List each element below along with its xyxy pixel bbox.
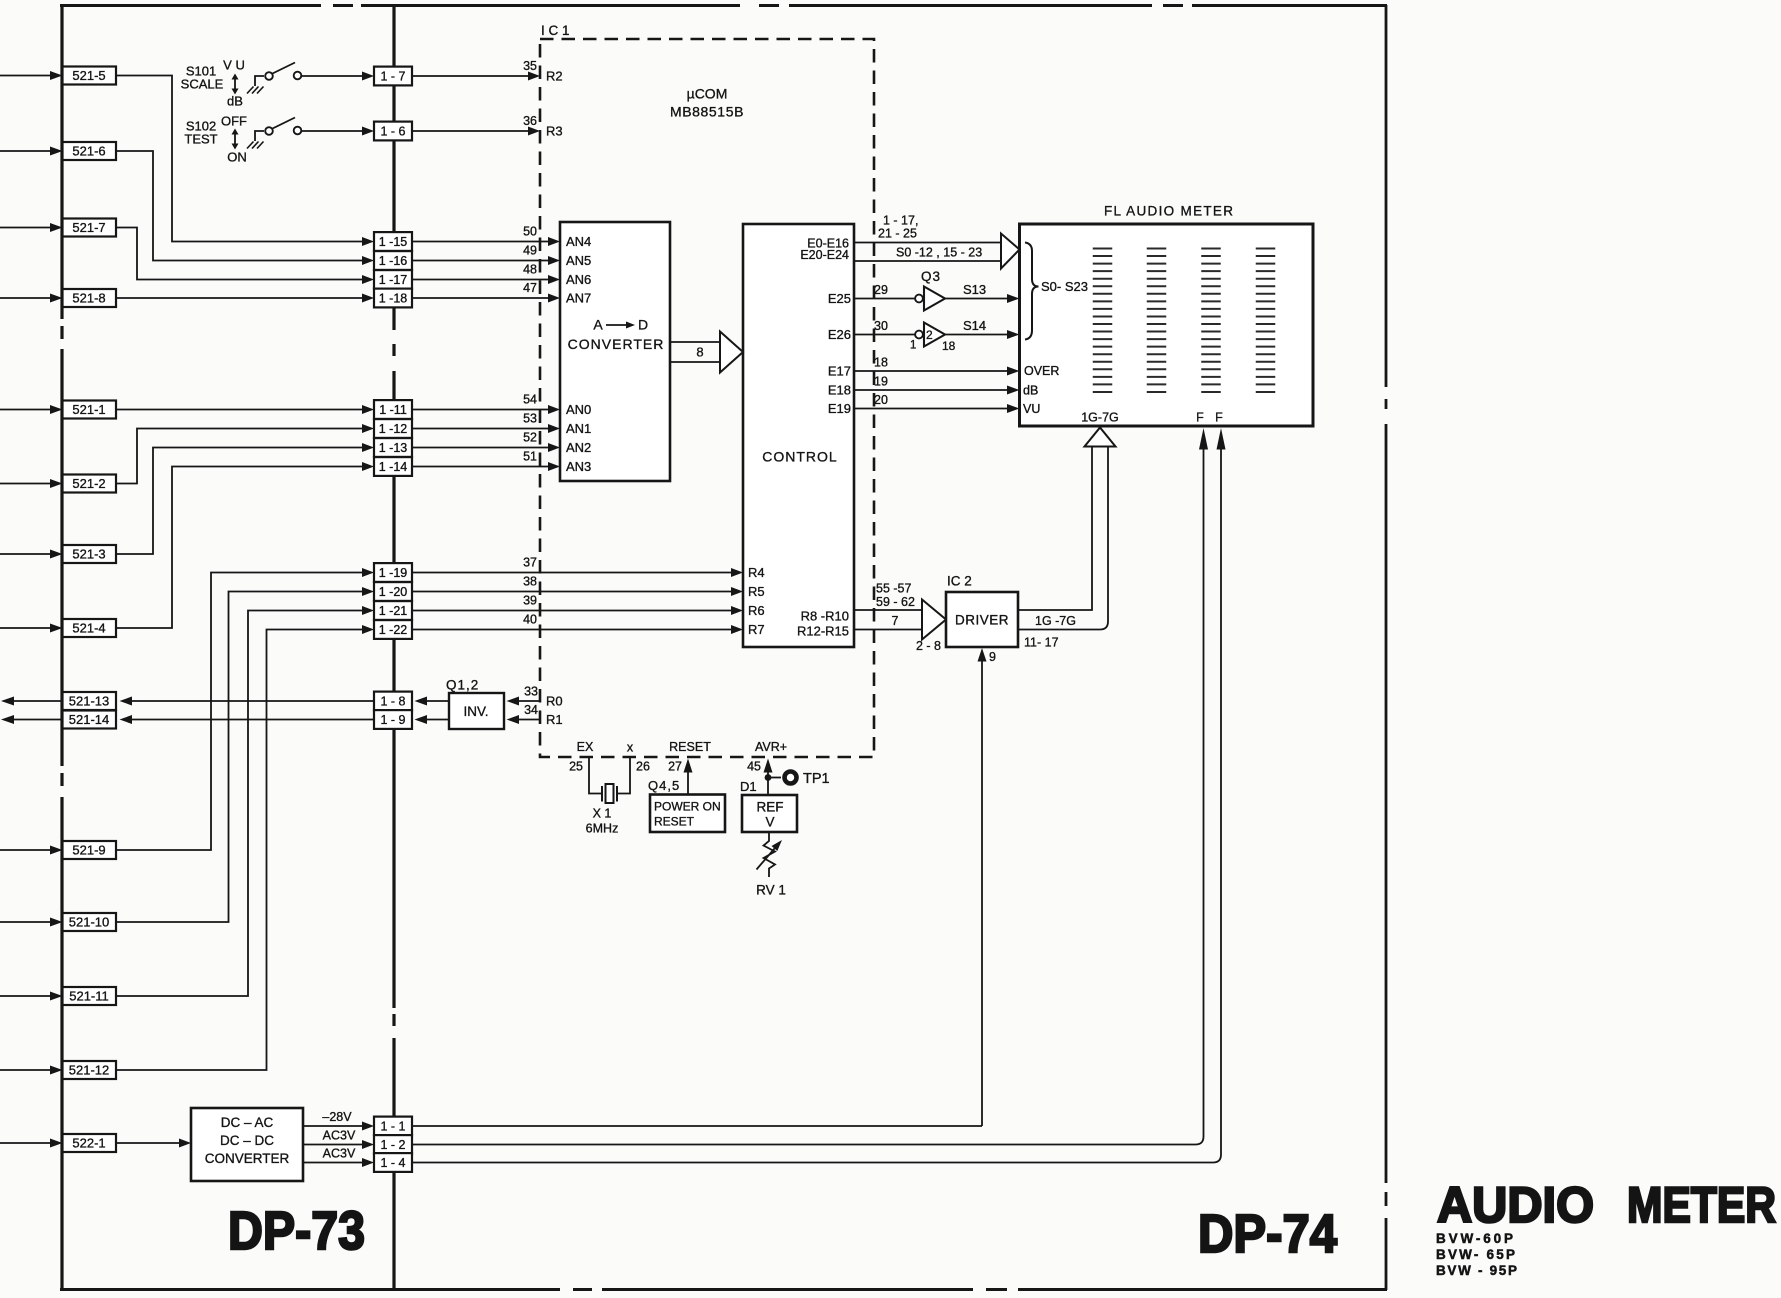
wire 521-1 to 1-11 [116, 405, 374, 414]
connector pin 1-2 [374, 1135, 412, 1154]
svg-text:F: F [1215, 411, 1223, 425]
svg-text:TP1: TP1 [803, 771, 830, 787]
svg-text:E17: E17 [828, 364, 851, 379]
svg-text:Q4,5: Q4,5 [648, 778, 680, 793]
connector pin 1-6 [374, 122, 412, 141]
svg-text:E25: E25 [828, 291, 851, 306]
svg-text:R2: R2 [546, 69, 563, 84]
svg-text:1 - 8: 1 - 8 [380, 695, 405, 709]
svg-text:521-7: 521-7 [72, 220, 105, 235]
svg-text:1 - 9: 1 - 9 [380, 713, 405, 727]
svg-text:38: 38 [523, 575, 537, 589]
svg-text:TEST: TEST [184, 132, 217, 147]
svg-text:1 -14: 1 -14 [379, 460, 408, 474]
connector pin 1-20 [374, 582, 412, 601]
wire S13 to FL meter [945, 282, 1020, 303]
connector pin 521-3 [63, 545, 117, 563]
wire 1-14 to AN3 pin 51 [412, 450, 560, 471]
wire S14 to FL meter [945, 318, 1020, 339]
connector pin 1-21 [374, 601, 412, 620]
wire entry arrow into 521-6 [0, 147, 63, 156]
svg-text:1 - 7: 1 - 7 [380, 70, 405, 84]
connector pin 1-1 [374, 1117, 412, 1136]
wire INV to 1-9 [415, 715, 450, 724]
wire entry arrow into 521-4 [0, 624, 63, 633]
svg-text:CONVERTER: CONVERTER [568, 336, 665, 352]
svg-text:7: 7 [892, 614, 899, 628]
svg-text:S13: S13 [963, 282, 986, 297]
connector pin 522-1 [63, 1134, 117, 1152]
wire entry arrow into 521-11 [0, 992, 63, 1001]
svg-text:AVR+: AVR+ [755, 740, 787, 754]
svg-text:RV 1: RV 1 [756, 883, 786, 898]
connector pin 521-1 [63, 401, 117, 419]
svg-text:AN1: AN1 [566, 421, 591, 436]
svg-text:R7: R7 [748, 622, 765, 637]
wire IC1 pin 34 R1 to INV [507, 703, 563, 727]
svg-text:EX: EX [577, 740, 594, 754]
svg-text:47: 47 [523, 281, 537, 295]
node AVR+ junction dot [765, 774, 772, 781]
connector pin 521-13 [63, 692, 117, 710]
wire 1-16 to AN5 pin 49 [412, 244, 560, 265]
connector pin 521-5 [63, 67, 117, 85]
svg-text:521-14: 521-14 [69, 712, 109, 727]
connector pin 1-4 [374, 1153, 412, 1172]
wire 1-20 to R5 pin 38 [412, 575, 743, 596]
wire 521-8 to 1-18 [116, 294, 374, 303]
svg-text:POWER ON: POWER ON [654, 800, 721, 814]
svg-text:AN2: AN2 [566, 440, 591, 455]
connector pin 1-17 [374, 270, 412, 289]
FL AUDIO METER display block [1020, 204, 1314, 426]
wire 521-2 to 1-12 [116, 424, 374, 484]
board divider column line DP-73/DP-74 [392, 5, 395, 1290]
svg-text:V: V [765, 815, 774, 830]
wire entry arrow into 521-12 [0, 1066, 63, 1075]
svg-text:36: 36 [523, 114, 537, 128]
svg-text:40: 40 [523, 613, 537, 627]
A/D converter block [560, 222, 670, 481]
svg-text:R1: R1 [546, 712, 563, 727]
wire 1-6 to IC1 pin 36 R3 [412, 114, 563, 139]
connector pin 521-11 [63, 987, 117, 1005]
wire 521-9 to 1-19 [116, 568, 374, 850]
svg-text:CONTROL: CONTROL [762, 449, 837, 465]
inverter block Q1,2 INV. [446, 678, 504, 729]
wire entry arrow into 521-5 [0, 71, 63, 80]
connector pin 1-9 [374, 710, 412, 729]
svg-text:49: 49 [523, 244, 537, 258]
svg-text:AC3V: AC3V [323, 1129, 356, 1143]
svg-text:A: A [593, 317, 603, 333]
svg-text:25: 25 [569, 760, 583, 774]
wire 1-8 to 521-13 [120, 697, 375, 706]
svg-text:521-13: 521-13 [69, 694, 109, 709]
wire 521-3 to 1-13 [116, 443, 374, 554]
CONTROL block [743, 224, 854, 647]
svg-text:–28V: –28V [322, 1110, 352, 1124]
wire 521-4 to 1-14 [116, 462, 374, 628]
wire AC3V to 1-4 [303, 1147, 374, 1167]
svg-text:522-1: 522-1 [72, 1136, 105, 1151]
wire S101 to 1-7 [302, 72, 375, 81]
svg-text:1 -12: 1 -12 [379, 422, 408, 436]
connector pin 521-9 [63, 841, 117, 859]
connector pin 1-19 [374, 563, 412, 582]
frame left border (DP-73 board edge) [60, 5, 63, 1290]
svg-text:R8 -R10: R8 -R10 [801, 609, 849, 624]
frame top border [60, 4, 1387, 7]
crystal X1 6MHz on pins EX 25 / X 26 [569, 740, 650, 836]
svg-text:30: 30 [874, 319, 888, 333]
svg-text:1 -11: 1 -11 [379, 403, 407, 417]
wire 1-15 to AN4 pin 50 [412, 225, 560, 246]
svg-text:VU: VU [1023, 402, 1040, 416]
svg-text:D: D [638, 317, 648, 333]
frame bottom border [60, 1288, 1387, 1291]
svg-text:18: 18 [874, 356, 888, 370]
wire E17 to OVER pin 18 [854, 356, 1020, 376]
svg-text:521-1: 521-1 [72, 402, 105, 417]
connector pin 521-12 [63, 1061, 117, 1079]
svg-text:1 -15: 1 -15 [379, 235, 408, 249]
svg-text:50: 50 [523, 225, 537, 239]
svg-text:37: 37 [523, 556, 537, 570]
FL meter pin labels [1023, 364, 1223, 425]
wire 521-11 to 1-21 [116, 606, 374, 996]
svg-text:X 1: X 1 [593, 807, 612, 821]
wire 1-19 to R4 pin 37 [412, 556, 743, 577]
svg-text:DRIVER: DRIVER [955, 613, 1009, 628]
svg-text:521-10: 521-10 [69, 915, 109, 930]
svg-text:x: x [627, 741, 634, 755]
svg-text:R3: R3 [546, 124, 563, 139]
svg-text:1 -19: 1 -19 [379, 566, 408, 580]
test point TP1 [768, 771, 830, 787]
svg-text:51: 51 [523, 450, 537, 464]
svg-text:R12-R15: R12-R15 [797, 624, 849, 639]
wire E19 to VU pin 20 [854, 393, 1020, 413]
svg-text:1 - 6: 1 - 6 [380, 125, 405, 139]
wire 521-7 to 1-17 [116, 228, 374, 285]
connector pin 521-10 [63, 913, 117, 931]
svg-text:dB: dB [227, 94, 243, 109]
svg-text:26: 26 [636, 760, 650, 774]
svg-text:D1: D1 [740, 779, 757, 794]
svg-text:E18: E18 [828, 383, 851, 398]
svg-text:Q3: Q3 [921, 269, 941, 284]
wire -28V to 1-1 [303, 1110, 374, 1130]
converter block DC-AC DC-DC [191, 1108, 303, 1181]
svg-text:33: 33 [524, 685, 538, 699]
bus arrow E0-E16/E20-E24 to FL meter [854, 214, 1020, 269]
svg-text:1 -17: 1 -17 [379, 273, 408, 287]
svg-text:dB: dB [1023, 384, 1038, 398]
wire 1-9 to 521-14 [120, 715, 375, 724]
connector pin 1-13 [374, 438, 412, 457]
svg-text:1 - 17,: 1 - 17, [883, 214, 918, 228]
wire entry arrow into 521-3 [0, 550, 63, 559]
wire 1-17 to AN6 pin 48 [412, 263, 560, 284]
svg-text:9: 9 [989, 650, 996, 664]
IC U1: microcomputer IC1 dashed outline [540, 23, 874, 757]
svg-text:S0 -12 , 15 - 23: S0 -12 , 15 - 23 [896, 245, 982, 259]
svg-text:1 -20: 1 -20 [379, 585, 408, 599]
svg-text:R0: R0 [546, 694, 563, 709]
svg-text:DC – DC: DC – DC [220, 1133, 274, 1148]
transistor Q3 inverter a (E25/S13) [854, 269, 945, 310]
svg-text:45: 45 [747, 760, 761, 774]
svg-text:11- 17: 11- 17 [1024, 636, 1059, 650]
svg-text:20: 20 [874, 393, 888, 407]
svg-text:IC 2: IC 2 [947, 574, 972, 589]
wire 521-6 to 1-16 [116, 151, 374, 265]
svg-text:SCALE: SCALE [181, 77, 224, 92]
svg-text:RESET: RESET [669, 740, 711, 754]
svg-text:R5: R5 [748, 584, 765, 599]
wire entry arrow into 521-7 [0, 223, 63, 232]
svg-text:1 -13: 1 -13 [379, 441, 408, 455]
svg-text:AN6: AN6 [566, 272, 591, 287]
svg-text:21 - 25: 21 - 25 [878, 227, 917, 241]
wire 1-2 to FL meter F arrow a [412, 428, 1208, 1145]
wire INV to 1-8 [415, 697, 450, 706]
FL meter segment columns [1103, 248, 1266, 394]
wire driver pin 9 from 1-1 [978, 648, 997, 1126]
svg-text:AN5: AN5 [566, 253, 591, 268]
svg-text:BVW- 65P: BVW- 65P [1436, 1247, 1515, 1262]
svg-text:OFF: OFF [221, 114, 247, 129]
transistor Q3 inverter b (E26/S14) [854, 319, 956, 353]
connector pin 521-8 [63, 289, 117, 307]
svg-text:521-6: 521-6 [72, 144, 105, 159]
frame right border (DP-74 board edge) [1385, 5, 1388, 1290]
svg-text:1 -16: 1 -16 [379, 254, 408, 268]
svg-text:MB88515B: MB88515B [670, 104, 744, 120]
wire 1-18 to AN7 pin 47 [412, 281, 560, 302]
connector pin 1-7 [374, 67, 412, 86]
model list [1436, 1231, 1517, 1278]
svg-text:1 -18: 1 -18 [379, 292, 408, 306]
potentiometer RV1 [756, 832, 786, 898]
connector pin 1-18 [374, 289, 412, 308]
svg-text:I C 1: I C 1 [541, 23, 570, 38]
wire AC3V to 1-2 [303, 1129, 374, 1149]
reference voltage block D1 REF V [740, 740, 797, 832]
svg-text:53: 53 [523, 412, 537, 426]
power-on-reset block Q4,5 [648, 740, 725, 832]
svg-text:27: 27 [668, 760, 682, 774]
connector pin 1-12 [374, 419, 412, 438]
svg-text:39: 39 [523, 594, 537, 608]
switch S101 SCALE [181, 58, 302, 109]
wire 1-21 to R6 pin 39 [412, 594, 743, 615]
IC1 part number label [670, 86, 744, 120]
svg-text:ON: ON [227, 150, 247, 165]
svg-text:521-12: 521-12 [69, 1063, 109, 1078]
svg-text:19: 19 [874, 375, 888, 389]
svg-text:S0- S23: S0- S23 [1041, 279, 1088, 294]
svg-text:AN0: AN0 [566, 402, 591, 417]
bus arrow driver 1G-7G to FL meter [1018, 428, 1116, 650]
connector pin 521-7 [63, 219, 117, 237]
connector pin 521-4 [63, 619, 117, 637]
svg-text:DP-74: DP-74 [1198, 1205, 1337, 1264]
wire S102 to 1-6 [302, 127, 375, 136]
connector pin 1-15 [374, 232, 412, 251]
svg-text:METER: METER [1627, 1176, 1776, 1233]
svg-text:8: 8 [696, 345, 703, 360]
svg-text:52: 52 [523, 431, 537, 445]
wire E18 to dB pin 19 [854, 375, 1020, 395]
svg-text:29: 29 [874, 283, 888, 297]
wire entry arrow into 521-14 [1, 715, 62, 724]
connector pin 521-2 [63, 475, 117, 493]
svg-text:AN7: AN7 [566, 291, 591, 306]
svg-text:AUDIO: AUDIO [1437, 1176, 1594, 1233]
svg-text:INV.: INV. [463, 704, 488, 719]
svg-text:F: F [1196, 411, 1204, 425]
svg-text:DC – AC: DC – AC [221, 1115, 274, 1130]
svg-text:V U: V U [223, 58, 245, 73]
svg-text:1: 1 [910, 340, 916, 352]
svg-text:E26: E26 [828, 327, 851, 342]
svg-text:1 -22: 1 -22 [379, 623, 408, 637]
svg-text:AN3: AN3 [566, 459, 591, 474]
wire entry arrow into 522-1 [0, 1139, 63, 1148]
svg-text:E19: E19 [828, 401, 851, 416]
svg-text:2: 2 [926, 328, 933, 342]
connector pin 1-16 [374, 251, 412, 270]
svg-text:REF: REF [757, 800, 784, 815]
wire 1-13 to AN2 pin 52 [412, 431, 560, 452]
wire 1-12 to AN1 pin 53 [412, 412, 560, 433]
wire entry arrow into 521-8 [0, 294, 63, 303]
svg-text:DP-73: DP-73 [228, 1202, 365, 1261]
svg-text:35: 35 [523, 59, 537, 73]
svg-text:59 - 62: 59 - 62 [876, 595, 915, 609]
connector pin 1-8 [374, 692, 412, 711]
wire entry arrow into 521-9 [0, 846, 63, 855]
svg-text:µCOM: µCOM [687, 86, 728, 102]
connector pin 1-11 [374, 400, 412, 419]
wire 521-5 to 1-15 [116, 76, 374, 247]
wire 521-12 to 1-22 [116, 625, 374, 1070]
svg-text:AC3V: AC3V [323, 1147, 356, 1161]
svg-text:AN4: AN4 [566, 234, 591, 249]
svg-text:E20-E24: E20-E24 [800, 248, 849, 262]
wire 1-4 to FL meter F arrow b [412, 428, 1226, 1163]
connector pin 1-22 [374, 620, 412, 639]
wire 521-10 to 1-20 [116, 587, 374, 922]
wire 1-22 to R7 pin 40 [412, 613, 743, 634]
svg-text:RESET: RESET [654, 815, 695, 829]
svg-text:1 -21: 1 -21 [379, 604, 408, 618]
svg-text:521-3: 521-3 [72, 547, 105, 562]
svg-text:55 -57: 55 -57 [876, 582, 911, 596]
svg-text:CONVERTER: CONVERTER [205, 1151, 290, 1166]
wire entry arrow into 521-13 [1, 697, 62, 706]
IC U2: DRIVER IC2 [946, 574, 1018, 647]
svg-text:1 - 2: 1 - 2 [380, 1138, 405, 1152]
svg-text:34: 34 [524, 703, 538, 717]
wire entry arrow into 521-2 [0, 479, 63, 488]
svg-text:521-9: 521-9 [72, 843, 105, 858]
svg-text:R6: R6 [748, 603, 765, 618]
svg-text:521-8: 521-8 [72, 291, 105, 306]
svg-text:2 - 8: 2 - 8 [916, 639, 941, 653]
wire entry arrow into 521-1 [0, 405, 63, 414]
connector pin 521-6 [63, 142, 117, 160]
wire 1-1 to driver pin 9 riser [412, 1125, 982, 1127]
switch S102 TEST [184, 114, 301, 165]
wire 1-11 to AN0 pin 54 [412, 393, 560, 414]
svg-text:R4: R4 [748, 565, 765, 580]
connector pin 1-14 [374, 457, 412, 476]
svg-text:18: 18 [942, 339, 956, 353]
wire entry arrow into 521-10 [0, 918, 63, 927]
bus arrow A/D to CONTROL (8 bits) [670, 332, 743, 373]
svg-text:521-4: 521-4 [72, 621, 105, 636]
svg-text:521-11: 521-11 [69, 989, 109, 1004]
svg-text:S14: S14 [963, 318, 986, 333]
svg-text:1G-7G: 1G-7G [1081, 411, 1119, 425]
svg-text:Q1,2: Q1,2 [446, 678, 479, 693]
svg-text:48: 48 [523, 263, 537, 277]
svg-text:54: 54 [523, 393, 537, 407]
svg-text:521-2: 521-2 [72, 476, 105, 491]
svg-text:521-5: 521-5 [72, 68, 105, 83]
wire 522-1 to DC-DC converter [116, 1139, 191, 1148]
svg-text:6MHz: 6MHz [586, 822, 619, 836]
svg-text:1G -7G: 1G -7G [1035, 614, 1076, 628]
svg-text:OVER: OVER [1024, 364, 1059, 378]
brace S0-S23 [1025, 243, 1088, 340]
bus arrow R8-R10/R12-R15 to driver [854, 582, 946, 654]
svg-text:1 - 1: 1 - 1 [380, 1120, 405, 1134]
svg-text:1 - 4: 1 - 4 [380, 1156, 405, 1170]
connector pin 521-14 [63, 711, 117, 729]
wire IC1 pin 33 R0 to INV [507, 685, 563, 709]
svg-text:FL AUDIO METER: FL AUDIO METER [1104, 204, 1233, 219]
wire 1-7 to IC1 pin 35 R2 [412, 59, 563, 84]
